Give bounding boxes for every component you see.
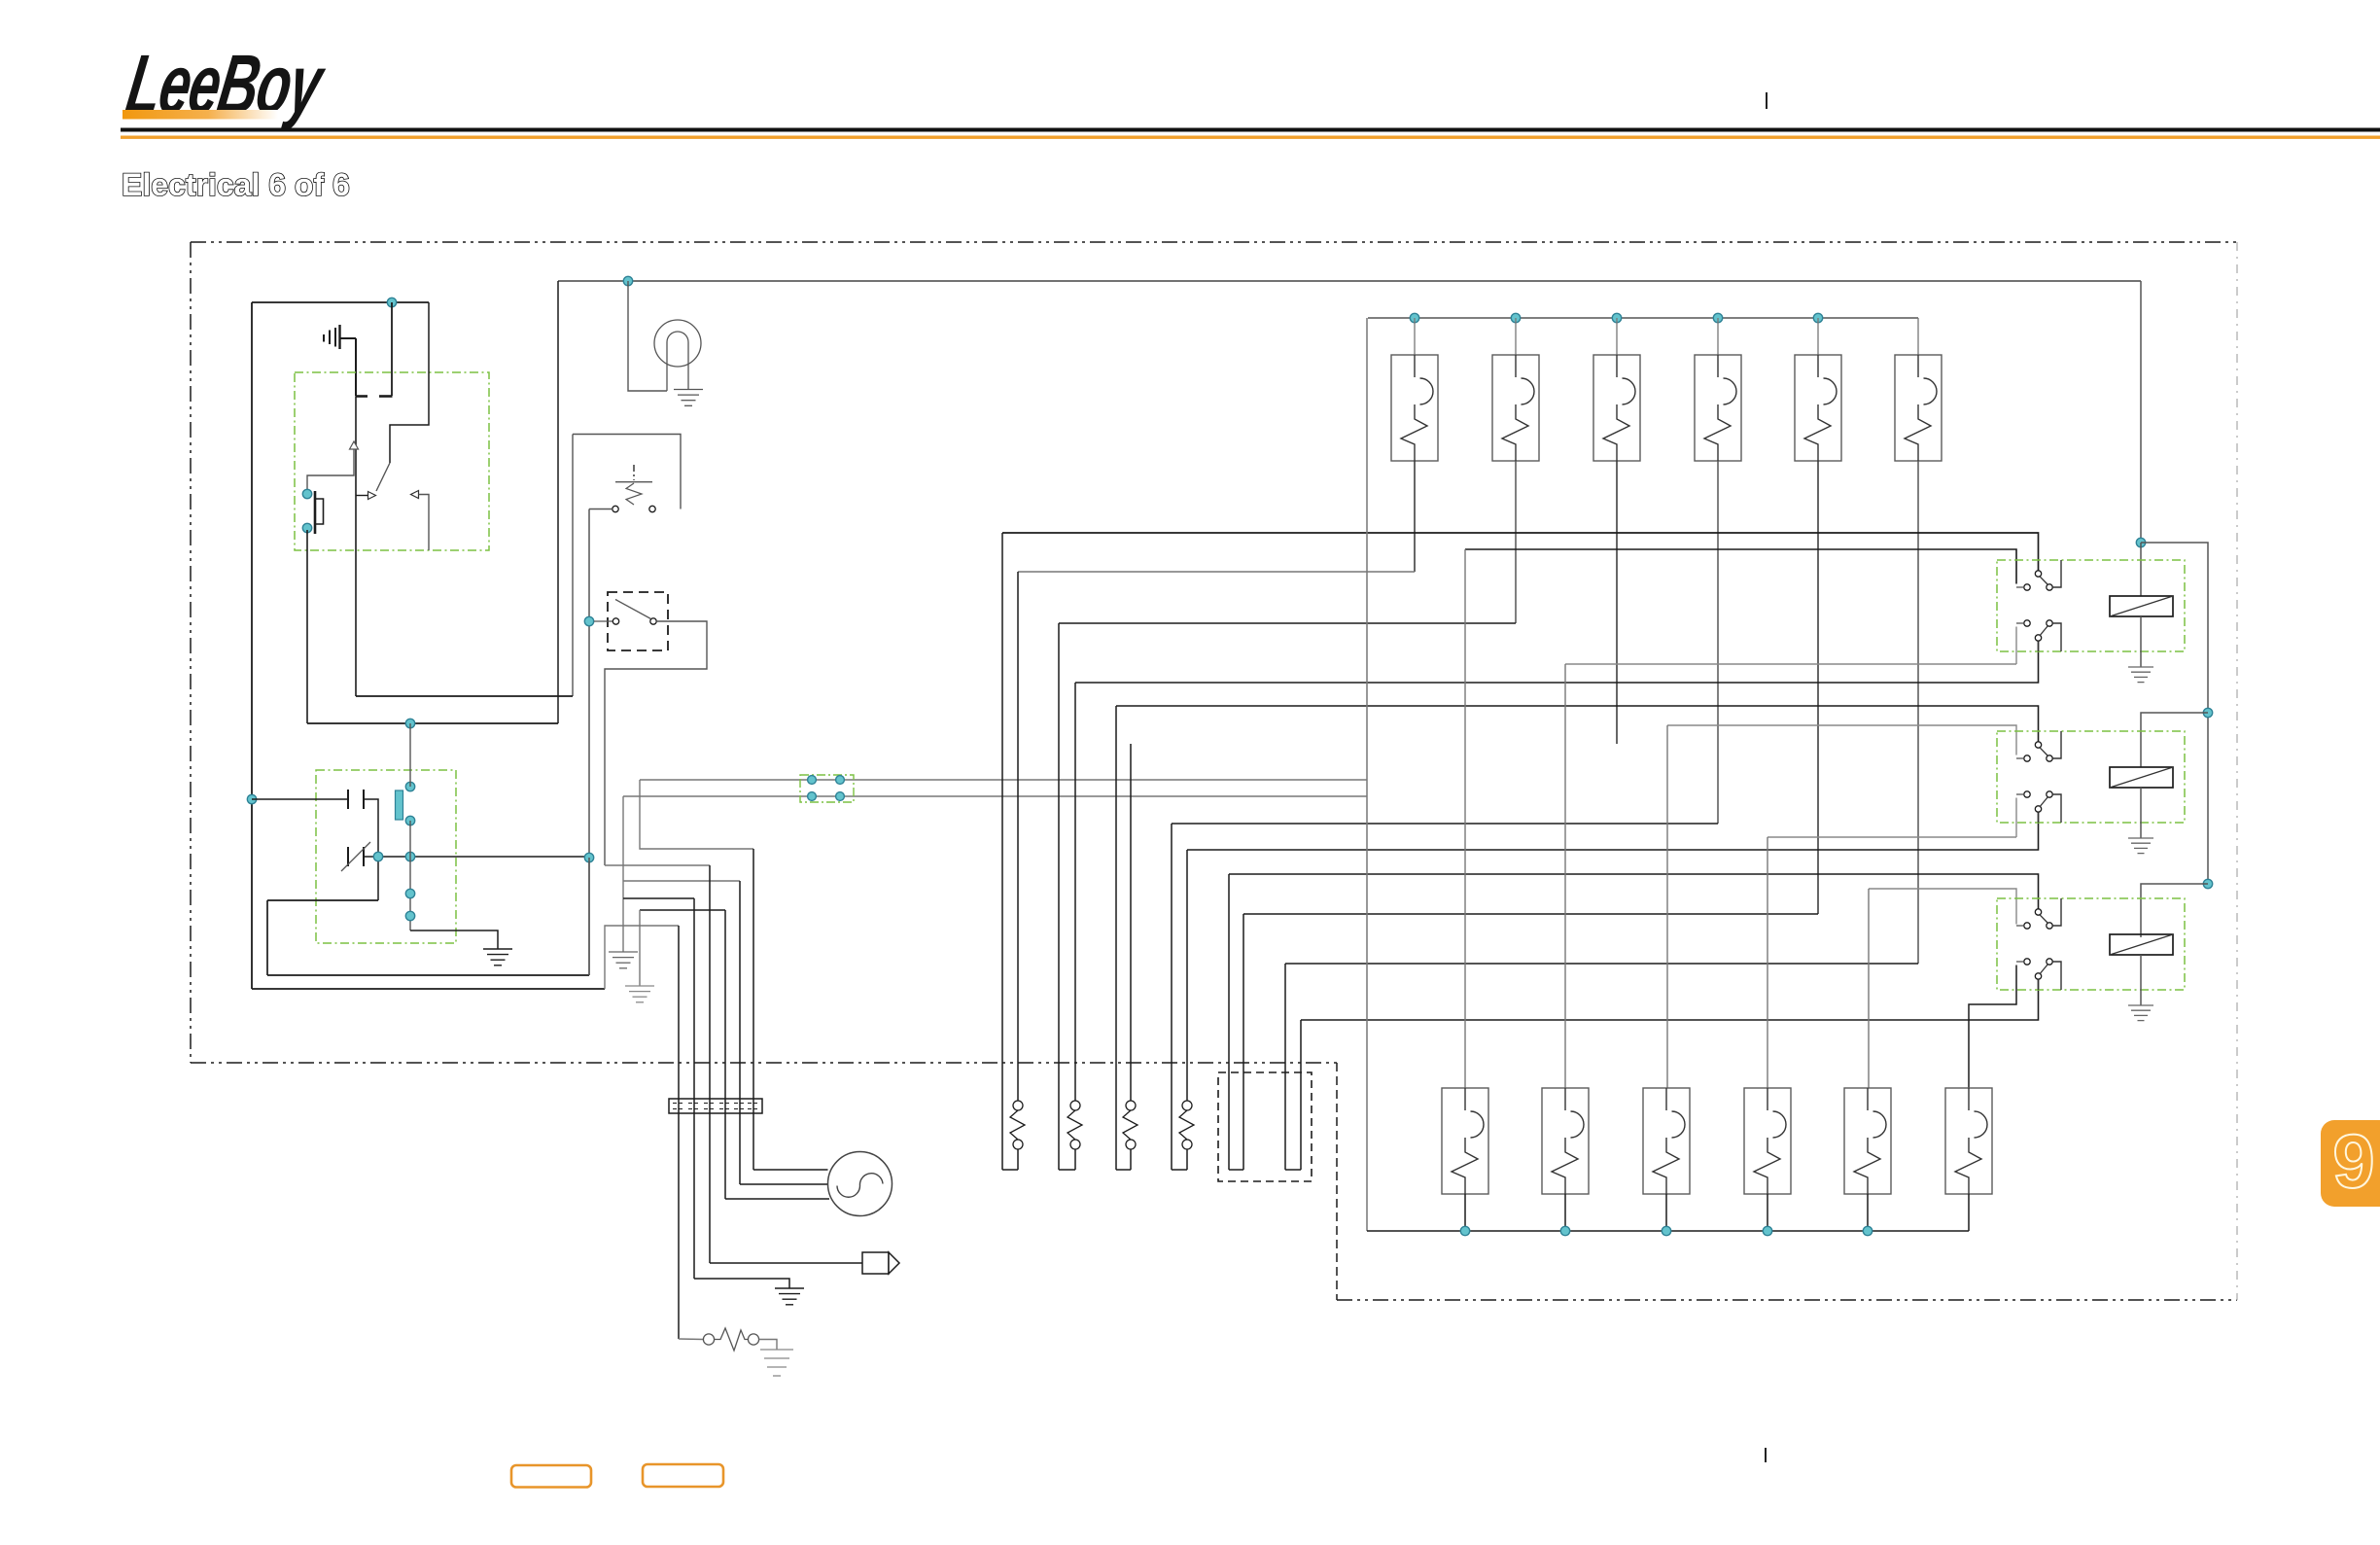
wire y726 m2 sw1 feed [1116,706,2039,742]
wire x275 [266,900,268,975]
ground relay K2 [2128,838,2153,854]
wire x658 upper [640,780,753,849]
wire lamp B2 bottom [1564,1194,1566,1231]
breaker dashdot stub [633,465,635,480]
wire m3sw2UL jog to lampB6 [1969,966,2016,1089]
main harness border notch vertical [1336,1063,1338,1300]
wire selector out [605,621,707,865]
wire lampB2 feed x1610 [1564,664,1566,1088]
node feeder [2136,538,2145,546]
relay module 1 green box [1997,560,2185,651]
wire y746 lampB3/m2sw1LL [1667,725,2016,755]
capacitor plate B [363,790,365,809]
node pushbutton bottom [302,523,311,532]
lamp L3 [1593,355,1640,461]
chassis ground symbol [324,325,356,349]
wire y924 to v2 [623,897,694,899]
spare breaker dashed box [1218,1072,1312,1181]
wire lampB5 feed x1922 [1868,889,1870,1088]
wire to ground G1 [410,931,498,949]
wire arrow-up lead [307,449,354,492]
power bus wire y289 [558,280,2141,282]
4dot connector green box [800,775,854,802]
wire lamp L3 top feed [1616,318,1618,355]
node lamp bus 5 [1813,313,1822,322]
lamp B6 [1945,1088,1992,1194]
header orange rule [121,136,2380,139]
wire pin1 vertical x698 [678,926,680,1339]
node flasher pb bottom [405,816,414,825]
wire cap out [364,799,378,900]
relay K3 coil [2110,934,2173,955]
wire arrow-left lead [419,495,430,551]
wire x422 lower [409,821,411,931]
node y881 main [584,853,593,861]
lamp L1 [1391,355,1438,461]
wire lampB4 feed x1818 [1767,837,1768,1088]
logo orange gradient underline [122,110,278,120]
wire lamp L1 bottom [1414,461,1416,572]
wire y565 lampB1/m1sw1LL [1465,549,2016,584]
wire lamp L4 bottom [1717,461,1719,824]
node bottom bus 3 [1662,1226,1670,1235]
gauge body circle [828,1152,892,1216]
wire lamp B3 bottom [1665,1194,1667,1231]
lamp B1 [1442,1088,1488,1194]
wire coil2 feed [2141,713,2208,767]
lamp B4 [1744,1088,1791,1194]
relay module 1 switch S1 [2016,560,2061,590]
wire y641 lampL2 link [1059,622,1516,624]
node lamp bus 1 [1410,313,1418,322]
wire lamp L3 bottom [1616,461,1618,744]
wire lamp B4 bottom [1767,1194,1768,1231]
wire left main vertical x259 [251,302,253,989]
relay module 3 switch S2 [2016,959,2061,990]
variable capacitor plate B [363,847,365,866]
relay K1 coil [2110,596,2173,616]
wire arrow stub [356,495,368,497]
breaker contact right [649,506,655,511]
wire y899 m3 sw1 feed [1229,874,2039,909]
flasher green box [316,770,456,943]
contact plate right [379,395,393,398]
main harness border top [191,241,2237,243]
wire lamp L6 top feed [1917,318,1919,355]
wire relay K1 coil ground lead [2140,616,2142,667]
wire y548 module1 sw1 feed [1002,533,2039,571]
contact arrow left-pointing [411,491,419,499]
node bottom bus 1 [1460,1226,1469,1235]
node lamp bus 2 [1511,313,1520,322]
lamp L5 [1795,355,1841,461]
wire pin4 vertical x746 [724,910,726,1199]
circuit breaker CB2 [1059,623,1082,1170]
lamp B3 [1643,1088,1690,1194]
wire pin1 to switch [679,1338,703,1341]
wire breaker loop top [573,435,681,509]
lamp B5 [1844,1088,1891,1194]
lamp L4 [1695,355,1741,461]
wire x606 lower [588,858,590,975]
circuit breaker CB3 [1116,706,1137,1170]
node coil3 feed [2203,879,2212,888]
wire pin5 vertical x761 [739,881,741,1184]
wire bus corner down x574 [557,281,559,723]
relay module 1 switch S2 [2016,620,2061,651]
variable capacitor arrow [341,842,370,871]
wire lamp L4 top feed [1717,318,1719,355]
wire x441 feed [390,302,429,463]
4dot connector wire lower y819 [623,795,1367,797]
selector lever [615,600,651,619]
node on power bus [623,276,632,285]
terminal strip J1 [669,1099,762,1113]
wire pin4 to gauge [725,1198,829,1200]
relay module 3 green box [1997,898,2185,990]
horn ground [674,390,703,406]
node x422 d [405,911,414,920]
wire y702 m1 pivot line [1075,641,2039,683]
wire y991 lampL6 link [1285,963,1918,965]
wire lever contact down x366 [355,397,357,697]
variable capacitor plate A [347,847,349,866]
wire lamp B6 bottom [1968,1194,1970,1231]
spare breaker slot 2 [1285,964,1301,1170]
wire pin2 to ground G2 [694,1279,789,1288]
relay K2 coil [2110,767,2173,788]
node bottom bus 4 [1763,1226,1771,1235]
node flasher pb top [405,782,414,790]
momentary switch contact A [703,1334,714,1345]
wire main vertical x1406 [1366,318,1368,1231]
wire y926 [267,899,378,901]
selector contact left [612,618,618,624]
horn inner tube [667,332,688,391]
node y881 a [373,852,382,860]
wire y744 [307,722,558,724]
registration tick bottom [1765,1448,1767,1462]
node lamp bus 4 [1713,313,1722,322]
horn body circle [654,320,701,367]
wire y1017 [252,988,605,990]
wire v1 feed [605,926,679,989]
wire breaker loop left x589 [572,435,574,697]
wire x641 [622,796,624,952]
ignition pushbutton bar [314,491,317,534]
wire cap lead [252,798,347,800]
wire pushbutton down x316 [306,530,308,723]
wire pin6 to gauge [753,1169,828,1171]
wire chassis to contact [355,338,357,396]
flasher pushbutton teal bar [396,790,403,820]
wire relay K2 coil ground lead [2140,788,2142,838]
relay module 2 switch S1 [2016,731,2061,761]
node y744 [405,719,414,727]
breaker crossbar [615,481,652,483]
wire lamp B5 bottom [1867,1194,1869,1231]
node y311 [387,298,396,306]
wire pin5 to gauge [740,1183,828,1185]
spade terminal [862,1252,899,1274]
footer button 2 [643,1464,723,1487]
wire lamp L5 bottom [1817,461,1819,914]
wire pin2 vertical x714 [693,898,695,1279]
main harness border bottom-right [1337,1299,2237,1301]
lamp L6 [1895,355,1942,461]
wire lamp L2 bottom [1515,461,1517,623]
4dot connector pins [808,776,845,801]
wire y716 [356,695,573,697]
node lamp bus 3 [1612,313,1621,322]
breaker contact left [612,506,618,511]
wire y588 lampL1 link [1018,571,1415,573]
ignition pushbutton bracket [316,499,324,524]
main harness border right [2236,242,2238,1300]
breaker zigzag [626,483,642,505]
wire coil3 feed [2141,884,2208,937]
contact plate left [356,395,368,398]
wire m1sw2UL drop [2015,627,2017,665]
wire x658 ground leg [639,910,641,986]
header black rule [121,128,2380,132]
relay module 2 switch S2 [2016,791,2061,823]
svg-text:Electrical 6 of 6: Electrical 6 of 6 [122,167,350,202]
chapter tab 9 [2321,1118,2380,1207]
wire x2202 feeder [2140,281,2142,543]
wire lamp L1 top feed [1414,318,1416,355]
wire y906 to v5 [623,880,740,882]
wire lampB3 feed x1715 [1666,725,1668,1088]
wire y1049 m3 pivot line [1301,979,2039,1020]
selector switch dashed box [608,592,668,650]
4dot connector wire upper y802 [640,779,1367,781]
selector contact right [650,618,656,624]
registration tick top [1766,92,1767,109]
wire lampB1 feed x1507 [1464,549,1466,1088]
wire top y311 [252,301,429,303]
wire switch to ground [759,1340,777,1351]
footer button 1 [511,1465,591,1488]
wire varcap row y881 [364,856,589,858]
wire coil1 top [2140,543,2142,596]
wire node to contact [594,620,612,622]
arrow up symbol [350,441,359,449]
node selector input [584,616,593,625]
ground G2 [775,1288,804,1305]
ground G1 [483,949,512,966]
wire y914 lampB5/m3sw1LL [1869,889,2016,925]
gauge S curve [837,1174,883,1198]
wire y874 m2 pivot line [1187,812,2039,850]
wire bus to horn x646 [628,281,667,391]
wire y847 lampL4 link [1172,823,1718,825]
wire lamp L5 top feed [1817,318,1819,355]
ground relay K1 [2128,667,2153,683]
switch resistor zigzag [715,1328,749,1351]
circuit breaker CB1 [1002,533,1025,1170]
lamp bus y327 [1368,317,1918,319]
ignition switch green box [295,372,489,550]
wire y1003 [267,974,589,976]
node y881 b [405,852,414,860]
bottom lamp bus y1266 [1367,1230,1969,1232]
LeeBoy logo text [121,37,332,131]
svg-text:9: 9 [2332,1118,2374,1204]
node x422 c [405,889,414,897]
wire y940 lampL5 link [1243,913,1818,915]
contact arrow right-pointing [368,492,376,500]
spare breaker slot 1 [1229,874,1243,1170]
lamp B2 [1542,1088,1589,1194]
ground B [625,986,654,1002]
relay module 2 green box [1997,731,2185,823]
ground G3 [760,1350,793,1376]
circuit breaker CB4 [1172,824,1194,1170]
wire m2sw2UL drop [2015,798,2017,838]
wire lamp B1 bottom [1464,1194,1466,1231]
wire pin3 vertical x730 [709,865,711,1263]
node coil2 feed [2203,708,2212,717]
wire lamp L6 bottom [1917,461,1919,964]
capacitor plate A [347,790,349,809]
relay module 3 switch S1 [2016,898,2061,929]
wire pin3 to spade [710,1262,862,1264]
ignition lever [376,463,390,491]
node pushbutton top [302,489,311,498]
wire y890 to v3 [605,864,710,866]
wire pin6 vertical x775 [752,849,754,1170]
node bottom bus 5 [1863,1226,1872,1235]
wire plate to node x403 [391,302,393,396]
momentary switch contact B [748,1334,758,1345]
node bottom bus 2 [1560,1226,1569,1235]
wire lamp L2 top feed [1515,318,1517,355]
wire feeder to x2271 [2141,543,2208,884]
node capacitor input [247,794,256,803]
wire y683 lampB2/m1sw2UL [1565,663,2016,665]
lamp L2 [1492,355,1539,461]
ground relay K3 [2128,1005,2153,1021]
wire x606 vertical [588,509,590,976]
wire x422 upper [409,723,411,787]
wire x658 lower to v4 [640,909,725,911]
main harness border left [190,242,192,1063]
wire y861 lampB4/m2sw2UL [1767,836,2016,838]
main harness border bottom-left [191,1062,1337,1064]
ground A [609,952,638,968]
wire relay K3 coil ground lead [2140,955,2142,1005]
wire breaker left lead [589,509,612,510]
